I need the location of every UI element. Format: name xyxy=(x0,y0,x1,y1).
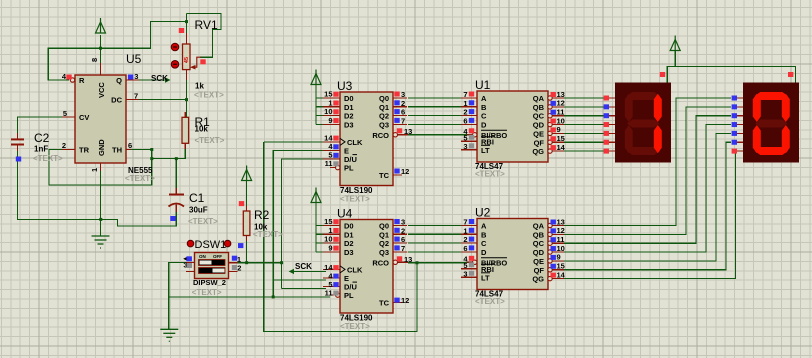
display 2 anode state square xyxy=(788,72,793,77)
svg-text:QE: QE xyxy=(533,129,544,138)
svg-text:2: 2 xyxy=(62,141,66,150)
wire C2 bottom to ground rail xyxy=(18,148,101,219)
wire U3 D2 branch xyxy=(316,115,326,117)
svg-text:<TEXT>: <TEXT> xyxy=(475,297,505,306)
svg-text:<TEXT>: <TEXT> xyxy=(33,154,63,163)
svg-text:B: B xyxy=(481,103,487,112)
wire enable net SW1.4 to ground and PL/E xyxy=(169,263,186,330)
wire C1 bottom to ground rail xyxy=(101,210,177,226)
wire R1 bottom junction row xyxy=(152,143,186,158)
wire U4 D3 branch xyxy=(316,251,326,253)
wire RV1 wiper loop xyxy=(187,14,222,58)
svg-text:Q0: Q0 xyxy=(379,94,389,103)
svg-text:15: 15 xyxy=(324,90,332,99)
svg-text:9: 9 xyxy=(328,243,332,252)
svg-text:<TEXT>: <TEXT> xyxy=(194,91,224,100)
wire VCC power to 555 pin 8 xyxy=(100,35,102,63)
wire U3 E to U4 E vertical V2 xyxy=(273,151,326,297)
SW1 pin1 state square xyxy=(232,256,237,261)
wire U1 QA to display xyxy=(564,97,608,99)
svg-text:GND: GND xyxy=(97,139,106,156)
svg-text:QG: QG xyxy=(532,275,544,284)
svg-text:7: 7 xyxy=(463,90,467,99)
svg-text:R: R xyxy=(79,76,85,85)
wire 555 CV pin5 to C2 xyxy=(18,117,63,136)
wire U3 Q2 to U1 xyxy=(408,115,461,117)
svg-text:5: 5 xyxy=(63,109,67,118)
wire U1 QG to display xyxy=(564,150,608,152)
svg-text:1: 1 xyxy=(328,98,332,107)
wire U2 QF to display 2 xyxy=(564,142,731,270)
svg-text:<TEXT>: <TEXT> xyxy=(195,136,225,145)
svg-text:7: 7 xyxy=(134,92,138,101)
label NE555 xyxy=(128,166,153,175)
svg-text:U5: U5 xyxy=(126,52,142,66)
svg-text:2: 2 xyxy=(463,108,467,117)
label U1 xyxy=(475,78,491,92)
wire U3 D3 branch xyxy=(316,123,326,125)
svg-text:6: 6 xyxy=(401,235,405,244)
svg-text:Q2: Q2 xyxy=(379,112,389,121)
wire 555 reset pin4 to VCC net xyxy=(48,22,186,80)
svg-text:RCO: RCO xyxy=(372,258,389,267)
display 1 anode state square xyxy=(660,72,665,77)
svg-text:12: 12 xyxy=(557,99,565,108)
7-segment display 2 (digit 0) xyxy=(732,83,799,163)
SW1 pin4 state square xyxy=(187,256,192,261)
wire U4 PL row H4 xyxy=(169,296,330,298)
svg-text:6: 6 xyxy=(463,116,467,125)
label U2 TEXT xyxy=(475,297,505,306)
capacitor C1 xyxy=(169,188,185,212)
svg-text:QB: QB xyxy=(533,230,545,239)
wire 555 GND pin1 to ground xyxy=(100,163,102,236)
svg-text:6: 6 xyxy=(401,108,405,117)
wire 555 Q output SCK xyxy=(139,79,168,81)
svg-text:Q0: Q0 xyxy=(379,222,389,231)
capacitor C2 xyxy=(11,133,24,151)
svg-text:<TEXT>: <TEXT> xyxy=(188,217,218,226)
wire U3 D0 branch xyxy=(316,97,326,99)
resistor R2 xyxy=(243,206,250,241)
wire H1 SW1.1 R2 row xyxy=(238,262,282,264)
R2 state square top xyxy=(239,201,244,206)
label R2 value 10k xyxy=(254,223,268,232)
svg-text:A: A xyxy=(481,222,487,231)
svg-text:11: 11 xyxy=(557,108,565,117)
svg-text:3: 3 xyxy=(134,72,138,81)
SW1 toggle button left xyxy=(187,240,194,247)
svg-text:CLK: CLK xyxy=(347,138,363,147)
op-amp U5 NE555 timer xyxy=(62,58,139,172)
label C2 TEXT xyxy=(33,154,63,163)
wire C1 top branch xyxy=(175,159,177,190)
power symbol at U4 D bus xyxy=(311,188,321,203)
wire U2 QD to display 2 xyxy=(564,125,731,253)
svg-text:C: C xyxy=(481,239,487,248)
label R1 value 10k xyxy=(195,125,209,134)
U4 pin numbers and state squares xyxy=(324,217,412,305)
ground at 555 xyxy=(92,236,110,248)
svg-text:C2: C2 xyxy=(34,131,50,145)
svg-text:10: 10 xyxy=(324,107,332,116)
wire display anode rail xyxy=(667,51,795,83)
wire junctions xyxy=(99,20,419,298)
wire U1 QE to display xyxy=(564,132,608,134)
svg-text:D2: D2 xyxy=(344,239,354,248)
decoder U2 74LS47 xyxy=(461,219,564,290)
svg-text:CV: CV xyxy=(79,113,89,122)
svg-text:14: 14 xyxy=(557,143,566,152)
svg-text:13: 13 xyxy=(404,127,412,136)
svg-text:QA: QA xyxy=(533,94,545,103)
U3 pin numbers and state squares xyxy=(324,90,412,177)
svg-text:2: 2 xyxy=(237,263,241,272)
svg-text:10: 10 xyxy=(557,116,565,125)
svg-text:Q1: Q1 xyxy=(379,230,389,239)
svg-text:11: 11 xyxy=(325,288,333,297)
svg-text:2: 2 xyxy=(463,235,467,244)
wire 555 TH pin6 xyxy=(131,149,152,151)
U5 reset pin state square xyxy=(66,75,71,80)
power symbol at U3 D bus xyxy=(311,70,321,85)
svg-text:TC: TC xyxy=(379,171,390,180)
wire U2 QA to display 2 xyxy=(564,98,731,226)
svg-text:45: 45 xyxy=(184,57,190,63)
label R2 TEXT xyxy=(253,230,283,239)
svg-text:D2: D2 xyxy=(344,112,354,121)
svg-text:PL: PL xyxy=(344,164,354,173)
svg-text:C: C xyxy=(481,112,487,121)
wire RV1 top terminal xyxy=(186,14,188,33)
label U2 74LS47 xyxy=(475,290,504,299)
SW1 pin2 state square xyxy=(232,265,237,270)
label SCK at 555 xyxy=(151,74,168,83)
SW1 pin4 arrow xyxy=(183,257,187,261)
wire U4 D-bus power xyxy=(315,202,317,252)
counter U4 74LS190 xyxy=(323,220,408,314)
svg-text:QD: QD xyxy=(533,121,545,130)
ground at SW1 enable net xyxy=(160,329,178,341)
SW1 pin3 state square xyxy=(187,263,192,268)
svg-text:13: 13 xyxy=(557,90,565,99)
label C1 TEXT xyxy=(188,217,218,226)
svg-text:12: 12 xyxy=(401,167,409,176)
svg-text:13: 13 xyxy=(404,255,412,264)
wire U3 Q3 to U1 xyxy=(408,123,461,125)
label R2 xyxy=(254,208,270,222)
potentiometer RV1 xyxy=(171,33,201,80)
label U1 74LS47 xyxy=(475,162,504,171)
label SW1 pin2 xyxy=(237,263,241,272)
decoder U1 74LS47 xyxy=(461,91,564,162)
SCK arrow right xyxy=(165,77,171,82)
power symbol at displays xyxy=(670,36,680,51)
svg-text:13: 13 xyxy=(557,217,565,226)
svg-text:D1: D1 xyxy=(344,230,354,239)
svg-text:Q2: Q2 xyxy=(379,239,389,248)
label SW1 pin1 xyxy=(237,255,241,264)
label DIPSW_2 xyxy=(193,278,226,287)
svg-text:QF: QF xyxy=(534,266,545,275)
wire U3 D1 branch xyxy=(316,106,326,108)
U5 Q pin state square xyxy=(128,75,133,80)
wire 555 DC pin7 to RV1/R1 junction xyxy=(139,99,187,101)
wire U4 D1 branch xyxy=(316,233,326,235)
svg-text:3: 3 xyxy=(401,90,405,99)
switch SW1 DIPSW_2 xyxy=(186,253,237,279)
svg-text:11: 11 xyxy=(325,159,333,168)
svg-text:<TEXT>: <TEXT> xyxy=(253,230,283,239)
wire U3 Q1 to U1 xyxy=(408,106,461,108)
svg-text:DIPSW_2: DIPSW_2 xyxy=(193,278,226,287)
wire U2 QE to display 2 xyxy=(564,133,731,261)
svg-text:RCO: RCO xyxy=(372,131,389,140)
svg-text:9: 9 xyxy=(557,253,561,262)
wire SCK terminal to U4 CLK xyxy=(291,270,326,272)
svg-text:7: 7 xyxy=(401,244,405,253)
svg-text:14: 14 xyxy=(557,270,566,279)
svg-text:3: 3 xyxy=(463,269,467,278)
R2 state square bottom xyxy=(238,243,243,248)
7-segment display 1 (digit 1) xyxy=(604,83,671,163)
svg-text:6: 6 xyxy=(463,244,467,253)
svg-text:D1: D1 xyxy=(344,103,354,112)
label RV1 value 1k xyxy=(195,82,204,91)
counter U3 74LS190 xyxy=(323,92,408,186)
wire U4 RCO to U3 CLK cascade V1 xyxy=(264,142,417,332)
wire U3 RCO to U1 BI xyxy=(408,134,467,136)
svg-text:8: 8 xyxy=(90,58,99,62)
label U4 74LS190 xyxy=(340,314,373,323)
svg-text:12: 12 xyxy=(557,226,565,235)
wire U1 QC to display xyxy=(564,115,608,117)
label U4 TEXT xyxy=(340,322,370,331)
RV1 state square top xyxy=(179,28,184,33)
label R1 xyxy=(195,115,211,129)
label U5 TEXT xyxy=(125,174,155,183)
SW1 toggle button right xyxy=(224,240,231,247)
wire U2 QB to display 2 xyxy=(564,107,731,235)
svg-text:B: B xyxy=(481,230,487,239)
svg-text:U3: U3 xyxy=(337,79,353,93)
svg-text:D0: D0 xyxy=(344,222,354,231)
svg-text:DC: DC xyxy=(111,96,122,105)
svg-text:2: 2 xyxy=(401,226,405,235)
label U3 TEXT xyxy=(340,195,370,204)
svg-text:QC: QC xyxy=(533,112,545,121)
label RV1 TEXT xyxy=(194,91,224,100)
C1 state square xyxy=(170,216,175,221)
svg-text:10: 10 xyxy=(557,244,565,253)
wire 555 TR loop xyxy=(49,150,152,185)
svg-text:2: 2 xyxy=(401,99,405,108)
svg-text:D: D xyxy=(481,120,487,129)
svg-text:1: 1 xyxy=(328,226,332,235)
svg-text:TH: TH xyxy=(112,146,122,155)
svg-text:QG: QG xyxy=(532,147,544,156)
svg-text:<TEXT>: <TEXT> xyxy=(475,170,505,179)
svg-text:1: 1 xyxy=(90,168,99,172)
svg-text:Q3: Q3 xyxy=(379,248,389,257)
svg-text:15: 15 xyxy=(557,262,565,271)
svg-text:SCK: SCK xyxy=(151,74,168,83)
svg-text:1k: 1k xyxy=(195,82,204,91)
svg-text:LT: LT xyxy=(481,273,490,282)
svg-text:3: 3 xyxy=(401,218,405,227)
svg-text:<TEXT>: <TEXT> xyxy=(340,322,370,331)
svg-text:10: 10 xyxy=(324,235,332,244)
label C1 value 30uF xyxy=(189,206,208,215)
wire U3 D-bus power xyxy=(315,84,317,124)
wire U4 Q0 to U2 xyxy=(408,225,461,227)
wire U4 D0 branch xyxy=(316,225,326,227)
svg-text:VCC: VCC xyxy=(97,82,106,98)
svg-text:<TEXT>: <TEXT> xyxy=(192,288,222,297)
label R1 TEXT xyxy=(195,136,225,145)
wire U2 QG to display 2 xyxy=(564,151,738,279)
label RV1 xyxy=(195,18,218,32)
svg-text:1: 1 xyxy=(463,226,467,235)
svg-text:DSW1: DSW1 xyxy=(195,239,227,251)
svg-text:Q3: Q3 xyxy=(379,120,389,129)
svg-text:11: 11 xyxy=(557,235,565,244)
svg-text:1: 1 xyxy=(463,99,467,108)
svg-text:<TEXT>: <TEXT> xyxy=(340,195,370,204)
wire U4 Q1 to U2 xyxy=(408,233,461,235)
svg-text:OFF: OFF xyxy=(213,254,222,259)
wire up/down net V3 xyxy=(282,159,326,288)
wire U1 QD to display xyxy=(564,124,608,126)
U1 pin numbers and state squares xyxy=(463,90,565,152)
svg-text:QA: QA xyxy=(533,222,545,231)
wire U4 Q2 to U2 xyxy=(408,242,461,244)
wire U1 QB to display xyxy=(564,106,608,108)
svg-text:QD: QD xyxy=(533,248,545,257)
label SW1 TEXT xyxy=(192,288,222,297)
svg-text:15: 15 xyxy=(324,217,332,226)
wire U4 Q3 to U2 xyxy=(408,251,461,253)
svg-text:ON: ON xyxy=(199,254,206,259)
svg-text:7: 7 xyxy=(463,218,467,227)
svg-text:TC: TC xyxy=(379,299,390,308)
label C2 xyxy=(34,131,50,145)
svg-text:10k: 10k xyxy=(195,125,209,134)
svg-text:U4: U4 xyxy=(337,207,353,221)
power symbol VCC at 555 xyxy=(96,18,106,33)
svg-text:TR: TR xyxy=(79,146,90,155)
svg-text:9: 9 xyxy=(557,125,561,134)
wire RV1 bottom to R1 top xyxy=(186,80,188,117)
label U4 xyxy=(337,207,353,221)
svg-text:PL: PL xyxy=(344,291,354,300)
svg-text:R2: R2 xyxy=(254,208,270,222)
wire U2 QC to display 2 xyxy=(564,116,731,244)
label DSW1 xyxy=(195,239,227,251)
wire U4 D2 branch xyxy=(316,242,326,244)
label U1 TEXT xyxy=(475,170,505,179)
SCK arrow left xyxy=(289,269,294,274)
svg-text:12: 12 xyxy=(401,296,409,305)
svg-text:Q1: Q1 xyxy=(379,103,389,112)
wire U4 D/U branch xyxy=(282,287,326,289)
svg-text:QB: QB xyxy=(533,103,545,112)
svg-text:D3: D3 xyxy=(344,120,354,129)
svg-text:1nF: 1nF xyxy=(34,145,48,154)
svg-text:6: 6 xyxy=(128,141,132,150)
svg-text:7: 7 xyxy=(401,116,405,125)
svg-text:SCK: SCK xyxy=(295,262,312,271)
wire U1 QF to display xyxy=(564,141,608,143)
U2 pin numbers and state squares xyxy=(463,217,565,279)
svg-text:3: 3 xyxy=(463,142,467,151)
label U2 xyxy=(475,206,491,220)
resistor R1 xyxy=(182,112,189,149)
label SCK at U4 xyxy=(295,262,312,271)
svg-text:CLK: CLK xyxy=(347,265,363,274)
wire U3 CLK branch xyxy=(264,141,326,143)
svg-text:U1: U1 xyxy=(475,78,491,92)
wire U4 E branch xyxy=(273,279,326,281)
power symbol at R2 xyxy=(242,166,252,181)
svg-text:D: D xyxy=(481,248,487,257)
svg-text:A: A xyxy=(481,94,487,103)
label C2 value 1nF xyxy=(34,145,48,154)
svg-text:Q: Q xyxy=(116,76,122,85)
svg-text:30uF: 30uF xyxy=(189,206,208,215)
svg-text:C1: C1 xyxy=(189,191,205,205)
wire R2 bottom xyxy=(246,236,248,263)
svg-text:D0: D0 xyxy=(344,94,354,103)
wire R2 top to power xyxy=(246,181,248,213)
svg-text:14: 14 xyxy=(324,133,333,142)
svg-text:QE: QE xyxy=(533,257,544,266)
svg-text:<TEXT>: <TEXT> xyxy=(125,174,155,183)
svg-text:RV1: RV1 xyxy=(195,18,218,32)
svg-text:D3: D3 xyxy=(344,248,354,257)
label C1 xyxy=(189,191,205,205)
wire U3 Q0 to U1 xyxy=(408,97,461,99)
wire U4 RCO to U2 BI xyxy=(408,262,467,264)
svg-text:9: 9 xyxy=(328,116,332,125)
label U3 xyxy=(337,79,353,93)
label SW1 pin3 xyxy=(183,261,187,270)
svg-text:QC: QC xyxy=(533,239,545,248)
svg-text:QF: QF xyxy=(534,138,545,147)
C2 state square xyxy=(16,157,21,162)
svg-text:LT: LT xyxy=(481,146,490,155)
svg-text:U2: U2 xyxy=(475,206,491,220)
RV1 state square wiper xyxy=(200,59,205,64)
svg-text:15: 15 xyxy=(557,134,565,143)
label U5 xyxy=(126,52,142,66)
label U3 74LS190 xyxy=(340,186,373,195)
